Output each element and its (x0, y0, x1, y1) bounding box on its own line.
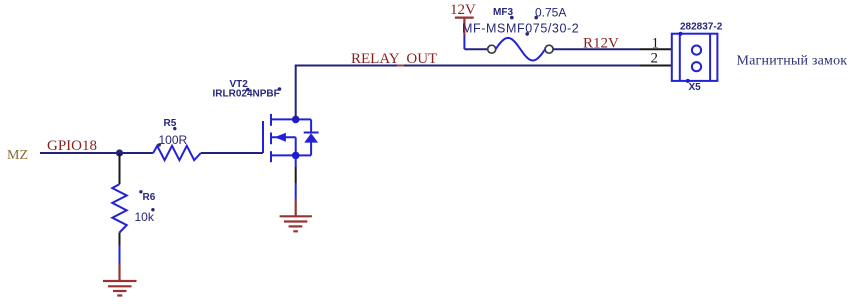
pin 1 (640, 48, 672, 50)
svg-text:282837-2: 282837-2 (680, 22, 723, 33)
body diode (296, 119, 319, 155)
wire 12V to fuse (464, 48, 487, 50)
wire GPIO18 (40, 152, 120, 154)
svg-text:R6: R6 (143, 192, 156, 203)
node drain (292, 116, 300, 124)
svg-text:GPIO18: GPIO18 (47, 138, 97, 154)
transistor VT2 (N-MOSFET) (263, 114, 296, 162)
node source (292, 152, 300, 160)
svg-text:R12V: R12V (583, 36, 619, 52)
svg-text:0.75A: 0.75A (535, 6, 566, 20)
svg-text:MF-MSMF075/30-2: MF-MSMF075/30-2 (462, 22, 579, 36)
resistor R6 (112, 184, 126, 232)
svg-text:Магнитный замок: Магнитный замок (737, 54, 848, 69)
svg-text:10k: 10k (135, 210, 155, 224)
wire R6 to ground (119, 233, 121, 246)
wire R5 to gate (201, 152, 263, 154)
wire drain up (295, 66, 297, 120)
svg-text:MZ: MZ (7, 148, 28, 163)
svg-text:RELAY OUT: RELAY OUT (351, 51, 437, 67)
wire RELAY OUT (296, 65, 640, 67)
svg-text:MF3: MF3 (493, 7, 513, 18)
connector X5 (672, 34, 718, 81)
resistor R5 (153, 146, 201, 160)
pin 2 (640, 65, 672, 67)
wire source down (295, 155, 297, 167)
wire junction to R5 (120, 152, 154, 154)
svg-text:X5: X5 (689, 82, 702, 93)
svg-text:100R: 100R (159, 133, 188, 147)
wire fuse to pin1 (553, 48, 640, 50)
ground GND (VT2) (280, 199, 312, 231)
svg-text:12V: 12V (450, 2, 476, 18)
fuse MF3 (488, 45, 496, 53)
svg-text:1: 1 (652, 36, 660, 52)
junction node (116, 149, 123, 156)
svg-text:2: 2 (651, 51, 659, 67)
ground GND (R6) (103, 264, 137, 296)
wire junction down to R6 (119, 153, 121, 184)
